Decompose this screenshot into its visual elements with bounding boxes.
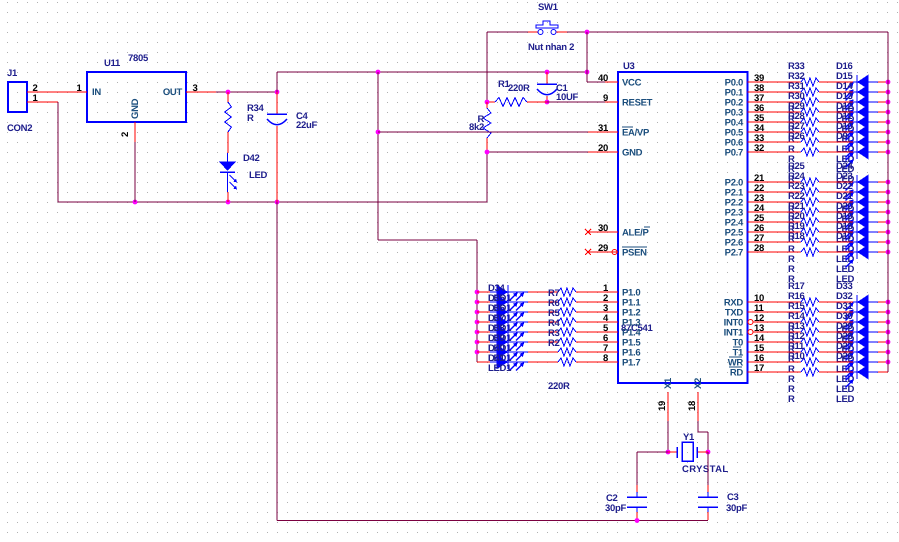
wire <box>587 81 605 83</box>
pin 40 VCC <box>588 73 642 88</box>
value R21 <box>788 244 795 255</box>
junction <box>475 290 480 295</box>
pin 36 P0.3 <box>725 103 764 118</box>
LED D37 <box>477 313 528 331</box>
wire <box>58 201 487 203</box>
resistor R1 220R <box>487 79 547 107</box>
resistor R7 <box>528 288 588 299</box>
value D39 <box>488 343 512 354</box>
value R13 <box>788 364 795 375</box>
pin 15 T1 <box>733 343 765 358</box>
wire <box>547 101 605 103</box>
resistor R25 <box>748 161 854 186</box>
wire VCC rail <box>277 71 587 73</box>
junction <box>886 250 891 255</box>
junction <box>886 320 891 325</box>
svg-text:P1.7: P1.7 <box>622 357 640 368</box>
svg-text:CON2: CON2 <box>7 123 32 134</box>
resistor R28 <box>748 111 854 136</box>
LED D36 <box>477 303 528 321</box>
svg-text:D42: D42 <box>243 153 260 164</box>
pin 37 P0.2 <box>725 93 764 108</box>
pin 12 INT0 <box>724 313 764 328</box>
pin 38 P0.1 <box>725 83 764 98</box>
resistor R10 <box>748 351 854 376</box>
no-connect circle INT0 <box>748 320 753 325</box>
svg-text:D17: D17 <box>836 231 853 242</box>
LED D15 <box>836 71 888 108</box>
resistor R22 <box>748 191 854 216</box>
junction <box>475 340 480 345</box>
svg-text:8: 8 <box>603 353 608 364</box>
capacitor C4 22uF <box>267 92 317 202</box>
pin 22 P2.1 <box>725 183 764 198</box>
svg-text:LED: LED <box>836 394 855 405</box>
pin 14 T0 <box>733 333 765 348</box>
LED D20 <box>836 201 888 238</box>
resistor R21 <box>748 201 854 226</box>
value D18 <box>836 264 855 275</box>
LED D38 <box>477 323 528 341</box>
svg-text:10UF: 10UF <box>556 92 579 103</box>
pin 39 P0.0 <box>725 73 764 88</box>
junction <box>666 450 711 455</box>
junction <box>886 300 891 305</box>
pin 13 INT1 <box>724 323 764 338</box>
resistor R <box>528 348 588 356</box>
resistor R5 <box>528 308 588 319</box>
value R28 <box>788 154 795 165</box>
svg-text:X1: X1 <box>663 377 674 389</box>
value D9 <box>836 174 855 185</box>
LED D42 <box>220 153 268 202</box>
junction <box>485 100 490 105</box>
resistor R27 <box>748 121 854 146</box>
value D37 <box>488 323 512 334</box>
value R26 <box>788 174 795 185</box>
junction <box>886 110 891 115</box>
resistor R34 <box>225 92 265 153</box>
LED D35 <box>477 293 528 311</box>
junction <box>376 70 590 75</box>
svg-text:3: 3 <box>193 83 198 94</box>
pin 18 X2 <box>687 378 704 421</box>
value R31 <box>788 124 795 135</box>
wire <box>667 421 669 452</box>
value R20 <box>788 254 795 265</box>
junction <box>886 220 891 225</box>
LED D19 <box>836 211 888 248</box>
svg-text:U11: U11 <box>104 58 121 69</box>
resistor R32 <box>748 71 854 96</box>
pin 8 P1.7 <box>588 353 640 368</box>
junction <box>585 30 590 35</box>
LED D12 <box>836 101 888 138</box>
wire LED bus <box>476 240 478 362</box>
value D36 <box>488 313 512 324</box>
value D19 <box>836 254 855 265</box>
value D13 <box>836 134 855 145</box>
svg-text:20: 20 <box>598 143 608 154</box>
wire EA <box>378 131 588 133</box>
svg-text:RESET: RESET <box>622 97 653 108</box>
wire <box>567 31 888 33</box>
LED D40 <box>477 343 528 361</box>
IC U3 87C541 <box>618 61 748 383</box>
resistor R6 <box>528 298 588 309</box>
junction <box>886 200 891 205</box>
pin 34 P0.5 <box>725 123 765 138</box>
resistor R14 <box>753 311 853 336</box>
value D23 <box>836 214 855 225</box>
value R23 <box>788 224 795 235</box>
value D17 <box>836 274 855 285</box>
resistor R19 <box>748 221 854 246</box>
svg-text:19: 19 <box>657 401 668 411</box>
svg-text:D9: D9 <box>836 131 848 142</box>
svg-text:J1: J1 <box>7 68 18 79</box>
svg-text:220R: 220R <box>508 83 530 94</box>
junction <box>886 340 891 345</box>
value D11 <box>836 154 855 165</box>
value D20 <box>836 244 855 255</box>
resistor R <box>528 358 588 366</box>
svg-text:8k2: 8k2 <box>469 122 484 133</box>
resistor R3 <box>528 328 588 339</box>
junction <box>886 210 891 215</box>
value D32 <box>836 334 855 345</box>
junction <box>545 100 550 105</box>
resistor R 8k2 <box>469 102 491 152</box>
svg-text:30pF: 30pF <box>726 503 747 514</box>
no-ERC marker ALE <box>585 229 591 235</box>
svg-text:D26: D26 <box>836 351 853 362</box>
resistor R13 <box>748 321 854 346</box>
wire <box>486 152 488 202</box>
wire <box>637 452 668 485</box>
value D40 <box>488 353 512 364</box>
switch SW1 Nut nhan 2 <box>528 2 574 53</box>
resistor R31 <box>748 81 854 106</box>
svg-text:Y1: Y1 <box>683 432 695 443</box>
value R27 <box>788 164 795 175</box>
value R11 <box>788 384 795 395</box>
svg-text:LED1: LED1 <box>488 363 512 374</box>
pin 3 P1.2 <box>588 303 640 318</box>
pin 21 P2.0 <box>725 173 765 188</box>
value R10 <box>788 394 795 405</box>
junction <box>886 150 891 155</box>
resistor R2 <box>528 338 588 349</box>
wire <box>698 421 708 452</box>
svg-text:VCC: VCC <box>622 77 642 88</box>
LED D29 <box>836 321 888 358</box>
svg-text:C3: C3 <box>727 492 739 503</box>
svg-text:U3: U3 <box>623 61 635 72</box>
regulator U11 7805 <box>58 53 216 202</box>
junction <box>376 130 381 135</box>
wire <box>276 202 278 521</box>
pin 31 EA/VP <box>588 123 650 138</box>
junction <box>485 150 490 155</box>
LED D23 <box>836 171 888 208</box>
svg-text:EA/VP: EA/VP <box>622 127 650 138</box>
pin 20 GND <box>588 143 643 158</box>
LED D13 <box>836 91 888 128</box>
value R33 <box>788 104 795 115</box>
wire <box>487 31 528 33</box>
junction <box>886 190 891 195</box>
resistor R16 <box>748 291 854 316</box>
wire <box>377 72 379 240</box>
svg-text:R10: R10 <box>788 351 805 362</box>
pin 5 P1.4 <box>588 323 641 338</box>
LED D34 <box>477 283 528 301</box>
pin 6 P1.5 <box>588 333 641 348</box>
no-ERC marker PSEN <box>585 249 591 255</box>
svg-text:CRYSTAL: CRYSTAL <box>682 464 729 475</box>
junction <box>475 330 480 335</box>
wire <box>587 32 605 82</box>
svg-text:220R: 220R <box>548 381 570 392</box>
wire <box>378 239 477 241</box>
wire <box>216 91 277 93</box>
LED D39 <box>477 333 528 351</box>
junction <box>886 350 891 355</box>
wire <box>276 72 278 92</box>
junction <box>886 90 891 95</box>
value D24 <box>836 204 855 215</box>
svg-text:18: 18 <box>687 401 698 411</box>
LED D9 <box>836 131 888 168</box>
svg-text:R: R <box>247 113 254 124</box>
LED D32 <box>836 291 888 328</box>
LED D28 <box>836 331 888 368</box>
svg-text:GND: GND <box>130 98 141 119</box>
value D30 <box>836 354 855 365</box>
resistor R17 <box>748 281 854 306</box>
svg-text:2: 2 <box>120 132 131 137</box>
pin 16 WR <box>728 353 764 368</box>
LED D27 <box>836 341 888 378</box>
svg-text:ALE/P: ALE/P <box>622 227 649 238</box>
wire <box>57 102 59 202</box>
resistor R30 <box>748 91 854 116</box>
svg-text:7805: 7805 <box>128 53 149 64</box>
junction <box>475 350 480 355</box>
junction <box>886 330 891 335</box>
junction <box>886 360 891 365</box>
resistor R24 <box>748 171 854 196</box>
value R24 <box>788 214 795 225</box>
svg-text:RD: RD <box>730 367 744 378</box>
LED D22 <box>836 181 888 218</box>
resistor R33 <box>748 61 854 86</box>
LED D11 <box>836 111 888 148</box>
value R12 <box>788 374 795 385</box>
junction <box>886 310 891 315</box>
LED D33 <box>836 281 888 318</box>
junction <box>635 518 640 523</box>
LED D16 <box>836 61 888 98</box>
LED D10 <box>836 121 888 158</box>
value D22 <box>836 224 855 235</box>
pin 27 P2.6 <box>725 233 764 248</box>
value R29 <box>788 144 795 155</box>
capacitor C2 30pF <box>605 485 647 520</box>
svg-text:31: 31 <box>598 123 609 134</box>
value R32 <box>788 114 795 125</box>
svg-text:LED: LED <box>249 170 268 181</box>
resistor R26 <box>748 131 854 156</box>
wire ground rail <box>277 520 708 522</box>
pin 33 P0.6 <box>725 133 764 148</box>
svg-text:OUT: OUT <box>163 87 183 98</box>
pin 17 RD <box>729 363 764 378</box>
value D10 <box>836 164 855 175</box>
svg-text:30pF: 30pF <box>605 503 626 514</box>
svg-text:30: 30 <box>598 223 608 234</box>
LED D21 <box>836 191 888 228</box>
value R17 <box>788 324 795 335</box>
value R15 <box>788 344 795 355</box>
pin 28 P2.7 <box>725 243 764 258</box>
pin 26 P2.5 <box>725 223 764 238</box>
value D29 <box>836 364 855 375</box>
value R14 <box>788 354 795 365</box>
pin 29 PSEN <box>588 243 647 258</box>
pin 35 P0.4 <box>725 113 765 128</box>
resistor R20 <box>748 211 854 236</box>
svg-text:SW1: SW1 <box>538 2 559 13</box>
resistor R4 <box>528 318 588 329</box>
junction <box>886 80 891 85</box>
value R18 <box>788 274 795 285</box>
resistor R11 <box>748 341 854 366</box>
junction <box>886 130 891 135</box>
value D34 <box>488 293 512 304</box>
LED D41 <box>477 353 528 371</box>
junction <box>226 90 280 95</box>
pin 11 TXD <box>725 303 765 318</box>
resistor R23 <box>748 181 854 206</box>
junction <box>886 100 891 105</box>
svg-text:R2: R2 <box>548 338 560 349</box>
value D41 <box>488 363 512 374</box>
junction <box>475 310 480 315</box>
value D27 <box>836 384 855 395</box>
no-connect circle INT1 <box>748 330 753 335</box>
LED D30 <box>836 311 888 348</box>
wire <box>547 101 605 103</box>
value D38 <box>488 333 512 344</box>
svg-text:R: R <box>788 394 795 405</box>
value D14 <box>836 124 855 135</box>
LED D24 <box>836 161 888 198</box>
pin 4 P1.3 <box>588 313 640 328</box>
value D35 <box>488 303 512 314</box>
LED D18 <box>836 221 888 258</box>
pin 9 RESET <box>588 93 653 108</box>
junction <box>133 200 280 205</box>
svg-text:X2: X2 <box>693 378 704 389</box>
svg-text:R18: R18 <box>788 231 805 242</box>
svg-text:IN: IN <box>92 87 101 98</box>
pin 7 P1.6 <box>588 343 640 358</box>
capacitor C3 30pF <box>698 485 747 520</box>
svg-text:29: 29 <box>598 243 608 254</box>
value R22 <box>788 234 795 245</box>
svg-text:Nut nhan 2: Nut nhan 2 <box>528 42 574 53</box>
LED D17 <box>836 231 888 268</box>
svg-text:P2.7: P2.7 <box>725 247 743 258</box>
junction <box>886 180 891 185</box>
pin 10 RXD <box>724 293 764 308</box>
value D12 <box>836 144 855 155</box>
value D15 <box>836 114 855 125</box>
value R30 <box>788 134 795 145</box>
wire LED supply bus <box>887 32 889 372</box>
LED D26 <box>836 351 888 388</box>
wire <box>486 32 488 102</box>
junction <box>886 120 891 125</box>
resistor R29 <box>748 101 854 126</box>
wire <box>707 452 709 485</box>
connector J1 <box>7 68 58 134</box>
value R16 <box>788 334 795 345</box>
no-connect circle PSEN <box>612 250 617 255</box>
resistor R18 <box>748 231 854 256</box>
svg-text:R26: R26 <box>788 131 805 142</box>
junction <box>886 230 891 235</box>
wire GND <box>487 151 588 153</box>
capacitor C1 10UF <box>537 72 579 103</box>
pin 30 ALE/P <box>588 223 650 238</box>
value D28 <box>836 374 855 385</box>
pin 32 P0.7 <box>725 143 764 158</box>
resistor R12 <box>748 331 854 356</box>
value R25 <box>788 204 795 215</box>
LED D31 <box>836 301 888 338</box>
junction <box>886 140 891 145</box>
pin 25 P2.4 <box>725 213 765 228</box>
value D16 <box>836 104 855 115</box>
value D26 <box>836 394 855 405</box>
crystal Y1 <box>668 432 729 475</box>
LED D14 <box>836 81 888 118</box>
pin 23 P2.2 <box>725 193 764 208</box>
junction <box>475 320 480 325</box>
value D33 <box>836 324 855 335</box>
value R19 <box>788 264 795 275</box>
resistor R15 <box>753 301 853 326</box>
junction <box>886 240 891 245</box>
svg-text:GND: GND <box>622 147 643 158</box>
value D31 <box>836 344 855 355</box>
pin 19 X1 <box>657 377 674 421</box>
svg-text:P0.7: P0.7 <box>725 147 743 158</box>
pin 1 P1.0 <box>588 283 640 298</box>
value D21 <box>836 234 855 245</box>
pin 24 P2.3 <box>725 203 765 218</box>
svg-text:22uF: 22uF <box>296 120 317 131</box>
junction <box>475 300 480 305</box>
svg-text:PSEN: PSEN <box>622 247 647 258</box>
pin 2 P1.1 <box>588 293 641 308</box>
value 220R <box>548 381 570 392</box>
